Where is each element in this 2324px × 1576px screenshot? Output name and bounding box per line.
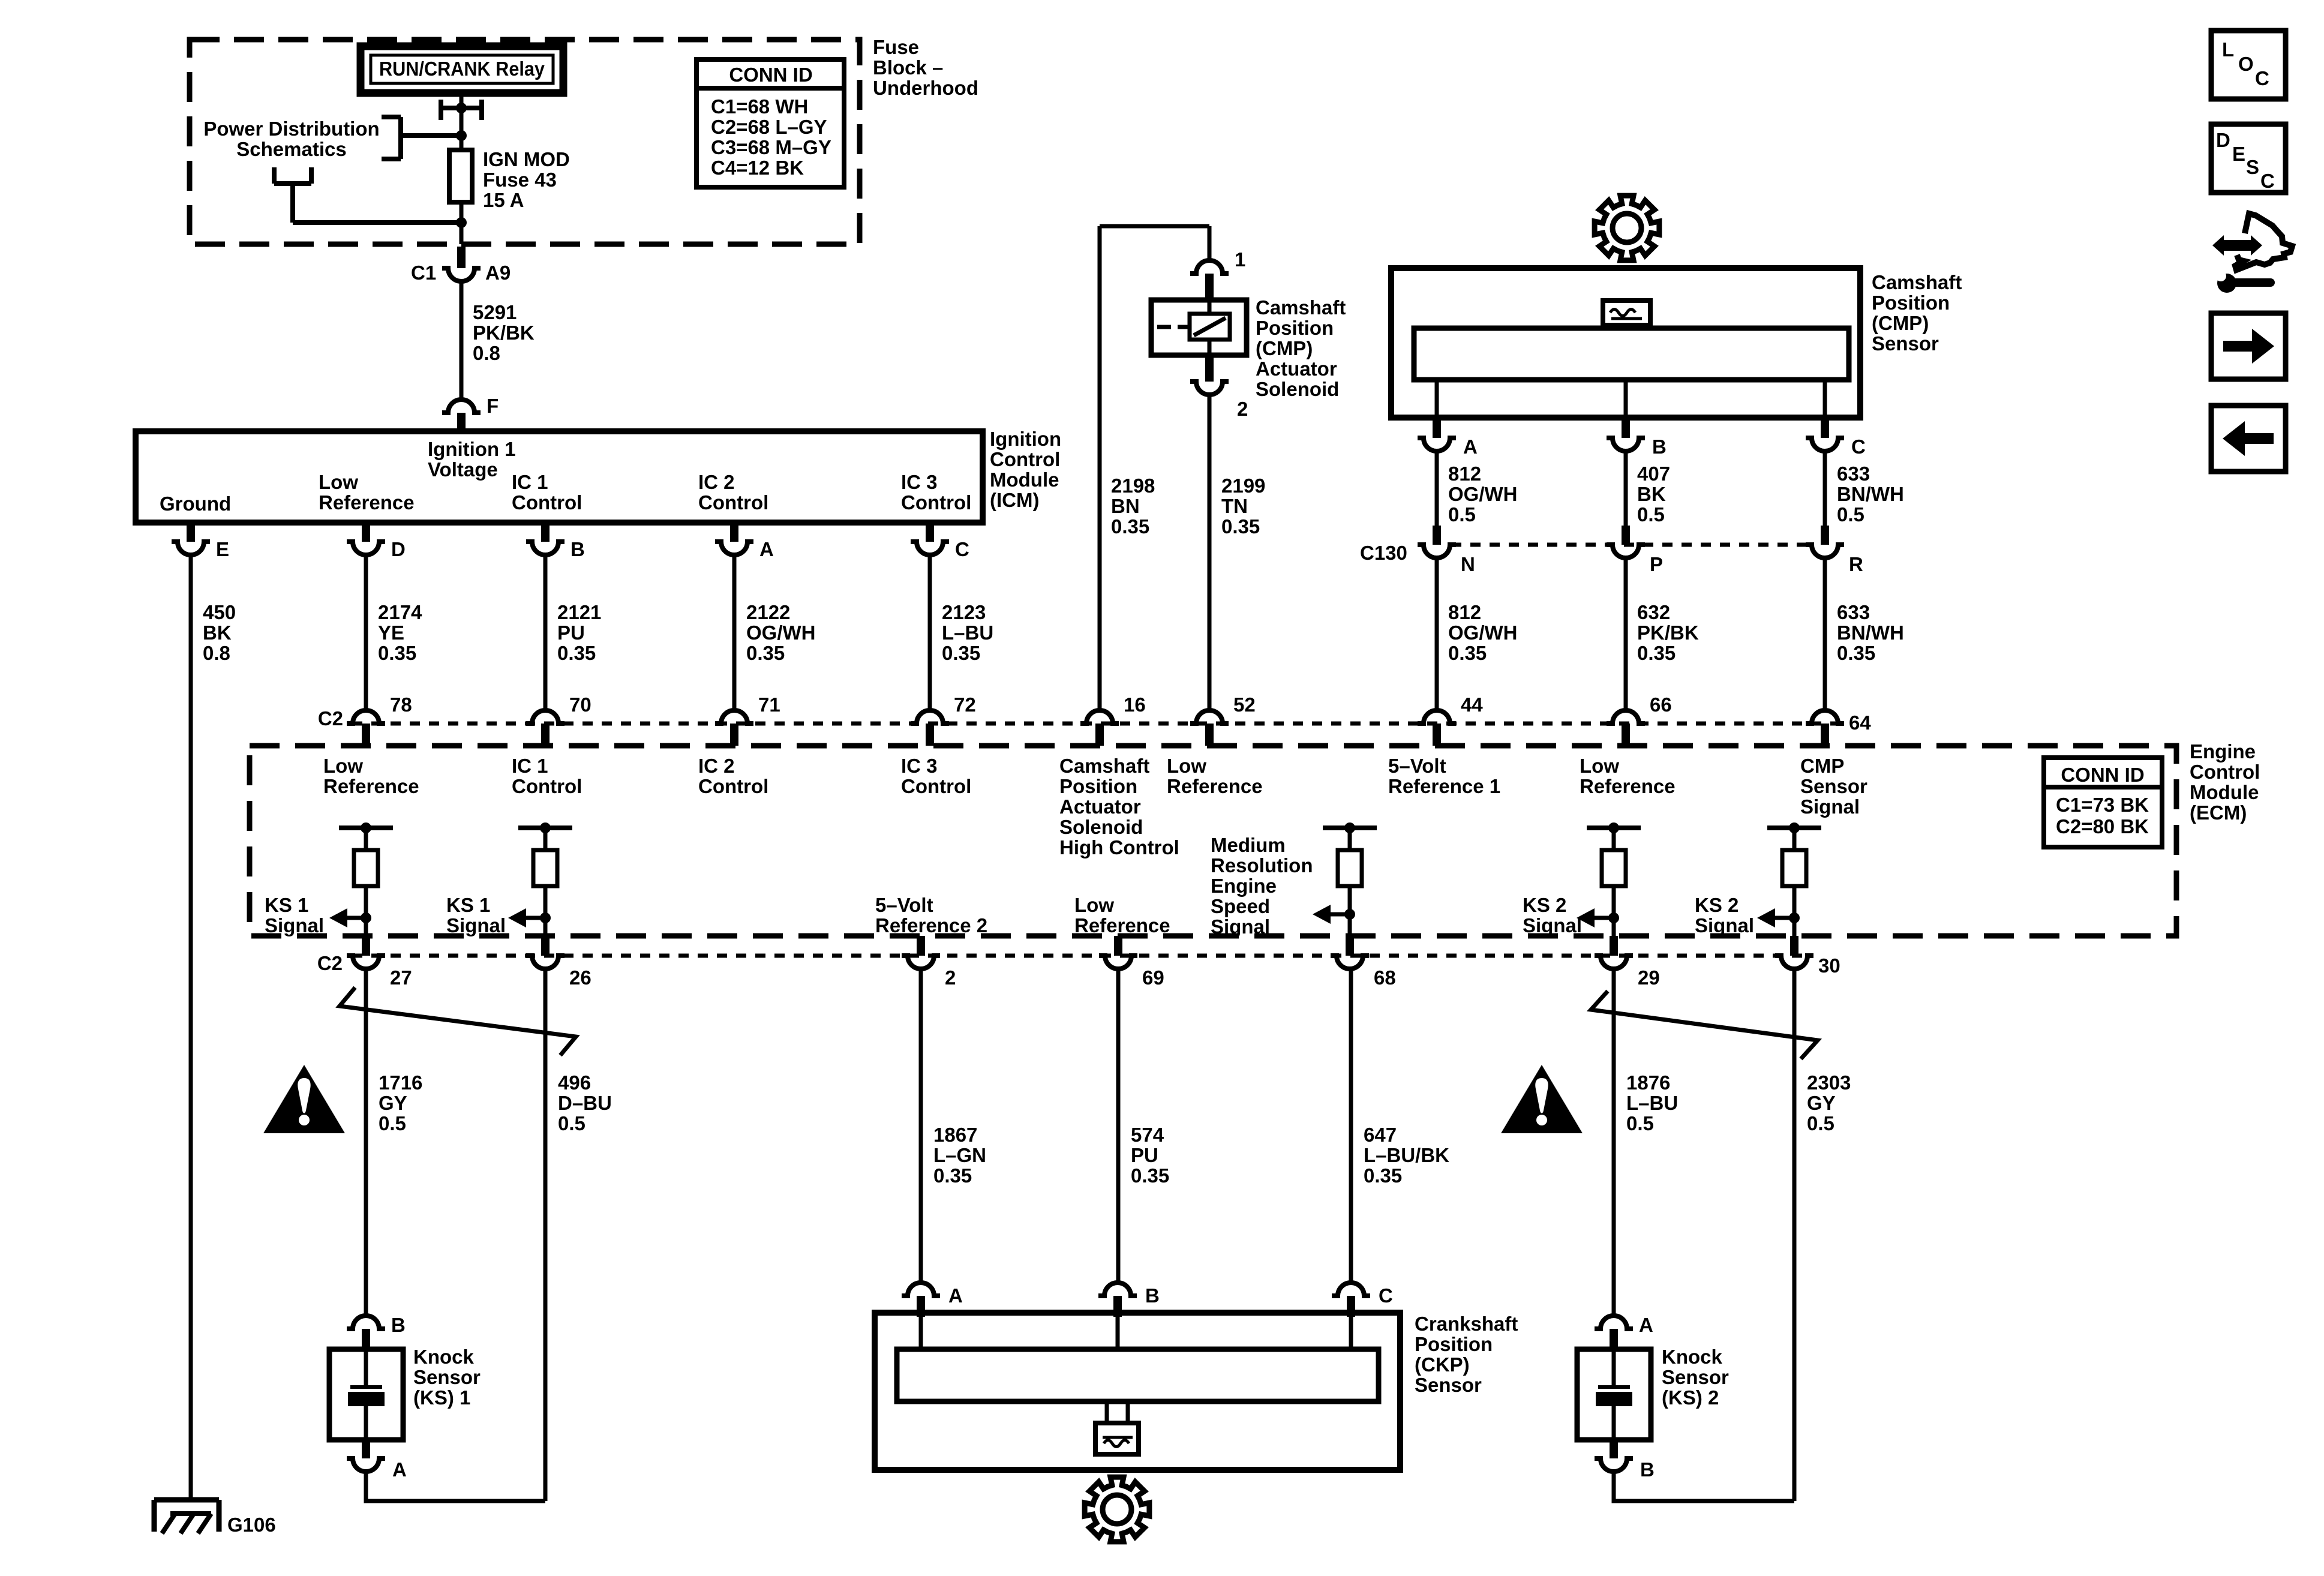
svg-text:29: 29 — [1638, 966, 1660, 989]
svg-text:PU: PU — [557, 622, 585, 644]
svg-text:Voltage: Voltage — [428, 458, 498, 481]
svg-text:2122: 2122 — [746, 601, 790, 623]
svg-text:N: N — [1461, 553, 1475, 575]
svg-text:Signal: Signal — [446, 914, 506, 936]
svg-text:0.35: 0.35 — [1131, 1164, 1169, 1187]
svg-text:0.5: 0.5 — [379, 1112, 406, 1134]
svg-text:Reference: Reference — [1167, 775, 1263, 797]
svg-text:BN/WH: BN/WH — [1837, 622, 1904, 644]
svg-text:2121: 2121 — [557, 601, 601, 623]
svg-text:Engine: Engine — [2190, 740, 2256, 763]
svg-text:C: C — [1379, 1284, 1393, 1307]
svg-text:Knock: Knock — [413, 1346, 475, 1368]
svg-text:68: 68 — [1374, 966, 1396, 989]
svg-text:Actuator: Actuator — [1256, 358, 1337, 380]
svg-text:Engine: Engine — [1211, 875, 1277, 897]
svg-text:0.8: 0.8 — [203, 642, 230, 664]
svg-text:G106: G106 — [227, 1514, 276, 1536]
svg-text:KS 1: KS 1 — [265, 894, 308, 916]
svg-text:Solenoid: Solenoid — [1256, 378, 1339, 400]
svg-text:D–BU: D–BU — [558, 1092, 612, 1114]
svg-text:Block –: Block – — [873, 56, 943, 79]
svg-text:0.5: 0.5 — [1637, 503, 1665, 526]
svg-text:C2: C2 — [317, 952, 343, 974]
svg-text:C130: C130 — [1360, 542, 1407, 564]
svg-text:A9: A9 — [485, 262, 511, 284]
svg-text:Module: Module — [2190, 781, 2259, 803]
svg-text:BN: BN — [1111, 495, 1140, 517]
svg-text:Reference: Reference — [323, 775, 419, 797]
svg-text:Ground: Ground — [160, 493, 231, 515]
svg-text:0.35: 0.35 — [1637, 642, 1676, 664]
svg-text:E: E — [216, 538, 229, 560]
svg-text:O: O — [2238, 53, 2254, 75]
svg-text:1716: 1716 — [379, 1071, 422, 1094]
svg-text:Reference: Reference — [319, 491, 415, 514]
svg-text:IC 1: IC 1 — [512, 471, 548, 493]
svg-text:C: C — [2255, 67, 2269, 89]
svg-text:496: 496 — [558, 1071, 591, 1094]
svg-text:Fuse 43: Fuse 43 — [483, 169, 557, 191]
svg-text:72: 72 — [954, 694, 976, 716]
svg-text:78: 78 — [390, 694, 412, 716]
svg-text:A: A — [392, 1458, 407, 1481]
svg-text:Knock: Knock — [1662, 1346, 1723, 1368]
svg-text:B: B — [1640, 1458, 1655, 1481]
svg-text:1867: 1867 — [933, 1124, 977, 1146]
svg-text:IC 2: IC 2 — [698, 471, 735, 493]
svg-text:0.5: 0.5 — [1448, 503, 1476, 526]
svg-text:407: 407 — [1637, 463, 1670, 485]
svg-text:Low: Low — [1167, 755, 1206, 777]
svg-text:KS 1: KS 1 — [446, 894, 490, 916]
svg-text:Fuse: Fuse — [873, 36, 919, 58]
svg-text:A: A — [759, 538, 774, 560]
svg-text:IC 2: IC 2 — [698, 755, 735, 777]
svg-text:450: 450 — [203, 601, 236, 623]
svg-text:Low: Low — [319, 471, 358, 493]
svg-text:D: D — [391, 538, 406, 560]
svg-text:64: 64 — [1849, 712, 1871, 734]
svg-text:5–Volt: 5–Volt — [875, 894, 933, 916]
svg-text:16: 16 — [1124, 694, 1146, 716]
svg-text:B: B — [571, 538, 585, 560]
svg-text:Reference: Reference — [1074, 914, 1170, 936]
svg-text:0.35: 0.35 — [746, 642, 785, 664]
svg-text:IC 1: IC 1 — [512, 755, 548, 777]
svg-text:Control: Control — [512, 775, 582, 797]
svg-text:71: 71 — [758, 694, 780, 716]
svg-text:5–Volt: 5–Volt — [1388, 755, 1446, 777]
svg-text:L–BU/BK: L–BU/BK — [1364, 1144, 1449, 1166]
svg-text:Ignition: Ignition — [990, 428, 1061, 450]
svg-text:(KS) 1: (KS) 1 — [413, 1386, 470, 1409]
svg-text:YE: YE — [378, 622, 404, 644]
svg-text:KS 2: KS 2 — [1523, 894, 1566, 916]
svg-text:Signal: Signal — [265, 914, 324, 936]
svg-text:C2: C2 — [318, 707, 343, 730]
svg-text:Control: Control — [990, 448, 1060, 470]
svg-text:D: D — [2216, 129, 2230, 151]
svg-text:Reference 2: Reference 2 — [875, 914, 987, 936]
svg-text:647: 647 — [1364, 1124, 1397, 1146]
svg-text:A: A — [1463, 436, 1478, 458]
svg-text:IGN MOD: IGN MOD — [483, 148, 570, 170]
svg-text:C2=80 BK: C2=80 BK — [2056, 815, 2149, 837]
svg-text:Crankshaft: Crankshaft — [1415, 1313, 1518, 1335]
svg-text:PK/BK: PK/BK — [473, 322, 535, 344]
svg-text:Sensor: Sensor — [1415, 1374, 1482, 1396]
svg-text:Signal: Signal — [1211, 915, 1270, 938]
svg-text:0.35: 0.35 — [1364, 1164, 1402, 1187]
svg-text:15 A: 15 A — [483, 189, 524, 211]
svg-text:C: C — [2260, 170, 2275, 192]
svg-text:(CKP): (CKP) — [1415, 1353, 1470, 1376]
svg-text:Position: Position — [1256, 317, 1334, 339]
svg-text:Solenoid: Solenoid — [1059, 816, 1143, 838]
svg-text:F: F — [487, 395, 499, 417]
svg-text:633: 633 — [1837, 601, 1870, 623]
svg-text:Low: Low — [1074, 894, 1114, 916]
svg-text:Reference: Reference — [1580, 775, 1676, 797]
svg-text:L–GN: L–GN — [933, 1144, 986, 1166]
svg-text:Position: Position — [1872, 292, 1950, 314]
svg-text:C4=12 BK: C4=12 BK — [711, 157, 804, 179]
svg-text:Control: Control — [901, 491, 971, 514]
svg-text:5291: 5291 — [473, 301, 517, 323]
svg-text:2: 2 — [1237, 398, 1248, 420]
svg-text:P: P — [1650, 553, 1663, 575]
svg-text:2123: 2123 — [942, 601, 986, 623]
svg-text:0.35: 0.35 — [1111, 515, 1149, 538]
svg-text:2303: 2303 — [1807, 1071, 1851, 1094]
svg-text:2199: 2199 — [1221, 475, 1265, 497]
svg-text:633: 633 — [1837, 463, 1870, 485]
svg-text:B: B — [1145, 1284, 1160, 1307]
svg-text:Position: Position — [1415, 1333, 1493, 1355]
svg-text:Reference 1: Reference 1 — [1388, 775, 1500, 797]
svg-text:High Control: High Control — [1059, 836, 1179, 858]
svg-text:0.5: 0.5 — [1807, 1112, 1834, 1134]
svg-text:C1: C1 — [411, 262, 436, 284]
svg-text:30: 30 — [1818, 954, 1840, 977]
svg-text:(CMP): (CMP) — [1256, 337, 1313, 359]
svg-text:BK: BK — [203, 622, 232, 644]
svg-text:0.5: 0.5 — [1837, 503, 1864, 526]
svg-text:C: C — [1851, 436, 1866, 458]
svg-text:812: 812 — [1448, 463, 1481, 485]
svg-text:CONN ID: CONN ID — [2061, 764, 2144, 786]
svg-text:2: 2 — [945, 966, 956, 989]
svg-text:Low: Low — [323, 755, 363, 777]
svg-text:IC 3: IC 3 — [901, 471, 938, 493]
svg-text:2174: 2174 — [378, 601, 422, 623]
svg-text:Power Distribution: Power Distribution — [203, 118, 379, 140]
svg-text:Control: Control — [698, 775, 768, 797]
svg-text:0.35: 0.35 — [557, 642, 596, 664]
svg-text:(ICM): (ICM) — [990, 489, 1039, 511]
svg-text:0.35: 0.35 — [942, 642, 980, 664]
svg-text:1: 1 — [1235, 248, 1245, 271]
svg-text:Actuator: Actuator — [1059, 795, 1141, 818]
svg-text:0.35: 0.35 — [1448, 642, 1487, 664]
svg-text:OG/WH: OG/WH — [1448, 483, 1517, 505]
svg-text:574: 574 — [1131, 1124, 1164, 1146]
svg-text:C2=68 L–GY: C2=68 L–GY — [711, 116, 827, 138]
svg-text:0.5: 0.5 — [1626, 1112, 1654, 1134]
svg-text:Signal: Signal — [1523, 914, 1582, 936]
svg-text:Camshaft: Camshaft — [1872, 271, 1962, 293]
svg-text:PU: PU — [1131, 1144, 1158, 1166]
svg-text:Sensor: Sensor — [413, 1366, 481, 1388]
svg-text:812: 812 — [1448, 601, 1481, 623]
svg-text:GY: GY — [1807, 1092, 1836, 1114]
svg-text:S: S — [2246, 156, 2259, 178]
svg-text:Sensor: Sensor — [1662, 1366, 1729, 1388]
svg-text:0.5: 0.5 — [558, 1112, 585, 1134]
svg-text:C1=68 WH: C1=68 WH — [711, 95, 808, 118]
svg-text:Sensor: Sensor — [1872, 332, 1939, 355]
svg-text:Control: Control — [698, 491, 768, 514]
svg-text:TN: TN — [1221, 495, 1248, 517]
svg-text:26: 26 — [569, 966, 591, 989]
svg-text:OG/WH: OG/WH — [1448, 622, 1517, 644]
svg-text:(ECM): (ECM) — [2190, 801, 2247, 824]
svg-text:70: 70 — [569, 694, 591, 716]
svg-text:OG/WH: OG/WH — [746, 622, 815, 644]
svg-text:2198: 2198 — [1111, 475, 1155, 497]
svg-text:0.35: 0.35 — [933, 1164, 972, 1187]
svg-text:PK/BK: PK/BK — [1637, 622, 1699, 644]
svg-text:BK: BK — [1637, 483, 1666, 505]
svg-text:0.35: 0.35 — [378, 642, 416, 664]
svg-text:Signal: Signal — [1695, 914, 1754, 936]
svg-text:CONN ID: CONN ID — [729, 64, 812, 86]
svg-text:Low: Low — [1580, 755, 1619, 777]
svg-text:A: A — [948, 1284, 963, 1307]
svg-text:L: L — [2222, 38, 2234, 61]
svg-text:Signal: Signal — [1800, 795, 1860, 818]
svg-text:E: E — [2232, 143, 2245, 165]
svg-text:Camshaft: Camshaft — [1059, 755, 1149, 777]
svg-text:RUN/CRANK Relay: RUN/CRANK Relay — [379, 58, 545, 80]
svg-text:(CMP): (CMP) — [1872, 312, 1929, 334]
svg-text:Sensor: Sensor — [1800, 775, 1867, 797]
svg-text:52: 52 — [1233, 694, 1256, 716]
svg-text:Module: Module — [990, 469, 1059, 491]
svg-text:66: 66 — [1650, 694, 1672, 716]
svg-text:Control: Control — [2190, 761, 2260, 783]
svg-text:Resolution: Resolution — [1211, 854, 1313, 876]
svg-text:L–BU: L–BU — [942, 622, 993, 644]
svg-text:1876: 1876 — [1626, 1071, 1670, 1094]
svg-text:(KS) 2: (KS) 2 — [1662, 1386, 1719, 1409]
svg-text:Underhood: Underhood — [873, 77, 978, 99]
svg-text:IC 3: IC 3 — [901, 755, 938, 777]
svg-text:CMP: CMP — [1800, 755, 1844, 777]
svg-text:44: 44 — [1461, 694, 1483, 716]
svg-text:Speed: Speed — [1211, 895, 1270, 917]
svg-text:Camshaft: Camshaft — [1256, 296, 1346, 319]
svg-text:0.8: 0.8 — [473, 342, 500, 364]
svg-text:L–BU: L–BU — [1626, 1092, 1678, 1114]
svg-text:0.35: 0.35 — [1837, 642, 1875, 664]
svg-text:B: B — [391, 1314, 406, 1336]
svg-text:C1=73 BK: C1=73 BK — [2056, 794, 2149, 816]
svg-text:GY: GY — [379, 1092, 407, 1114]
svg-text:Schematics: Schematics — [236, 138, 346, 160]
svg-text:69: 69 — [1142, 966, 1164, 989]
svg-text:B: B — [1652, 436, 1667, 458]
svg-text:Control: Control — [901, 775, 971, 797]
svg-text:Ignition 1: Ignition 1 — [428, 438, 516, 460]
svg-text:C: C — [955, 538, 969, 560]
svg-text:27: 27 — [390, 966, 412, 989]
svg-text:Medium: Medium — [1211, 834, 1286, 856]
svg-text:Position: Position — [1059, 775, 1137, 797]
svg-text:R: R — [1849, 553, 1863, 575]
svg-text:A: A — [1639, 1314, 1653, 1336]
svg-text:0.35: 0.35 — [1221, 515, 1260, 538]
svg-text:Control: Control — [512, 491, 582, 514]
svg-text:KS 2: KS 2 — [1695, 894, 1739, 916]
svg-text:632: 632 — [1637, 601, 1670, 623]
svg-text:BN/WH: BN/WH — [1837, 483, 1904, 505]
svg-text:C3=68 M–GY: C3=68 M–GY — [711, 136, 831, 158]
